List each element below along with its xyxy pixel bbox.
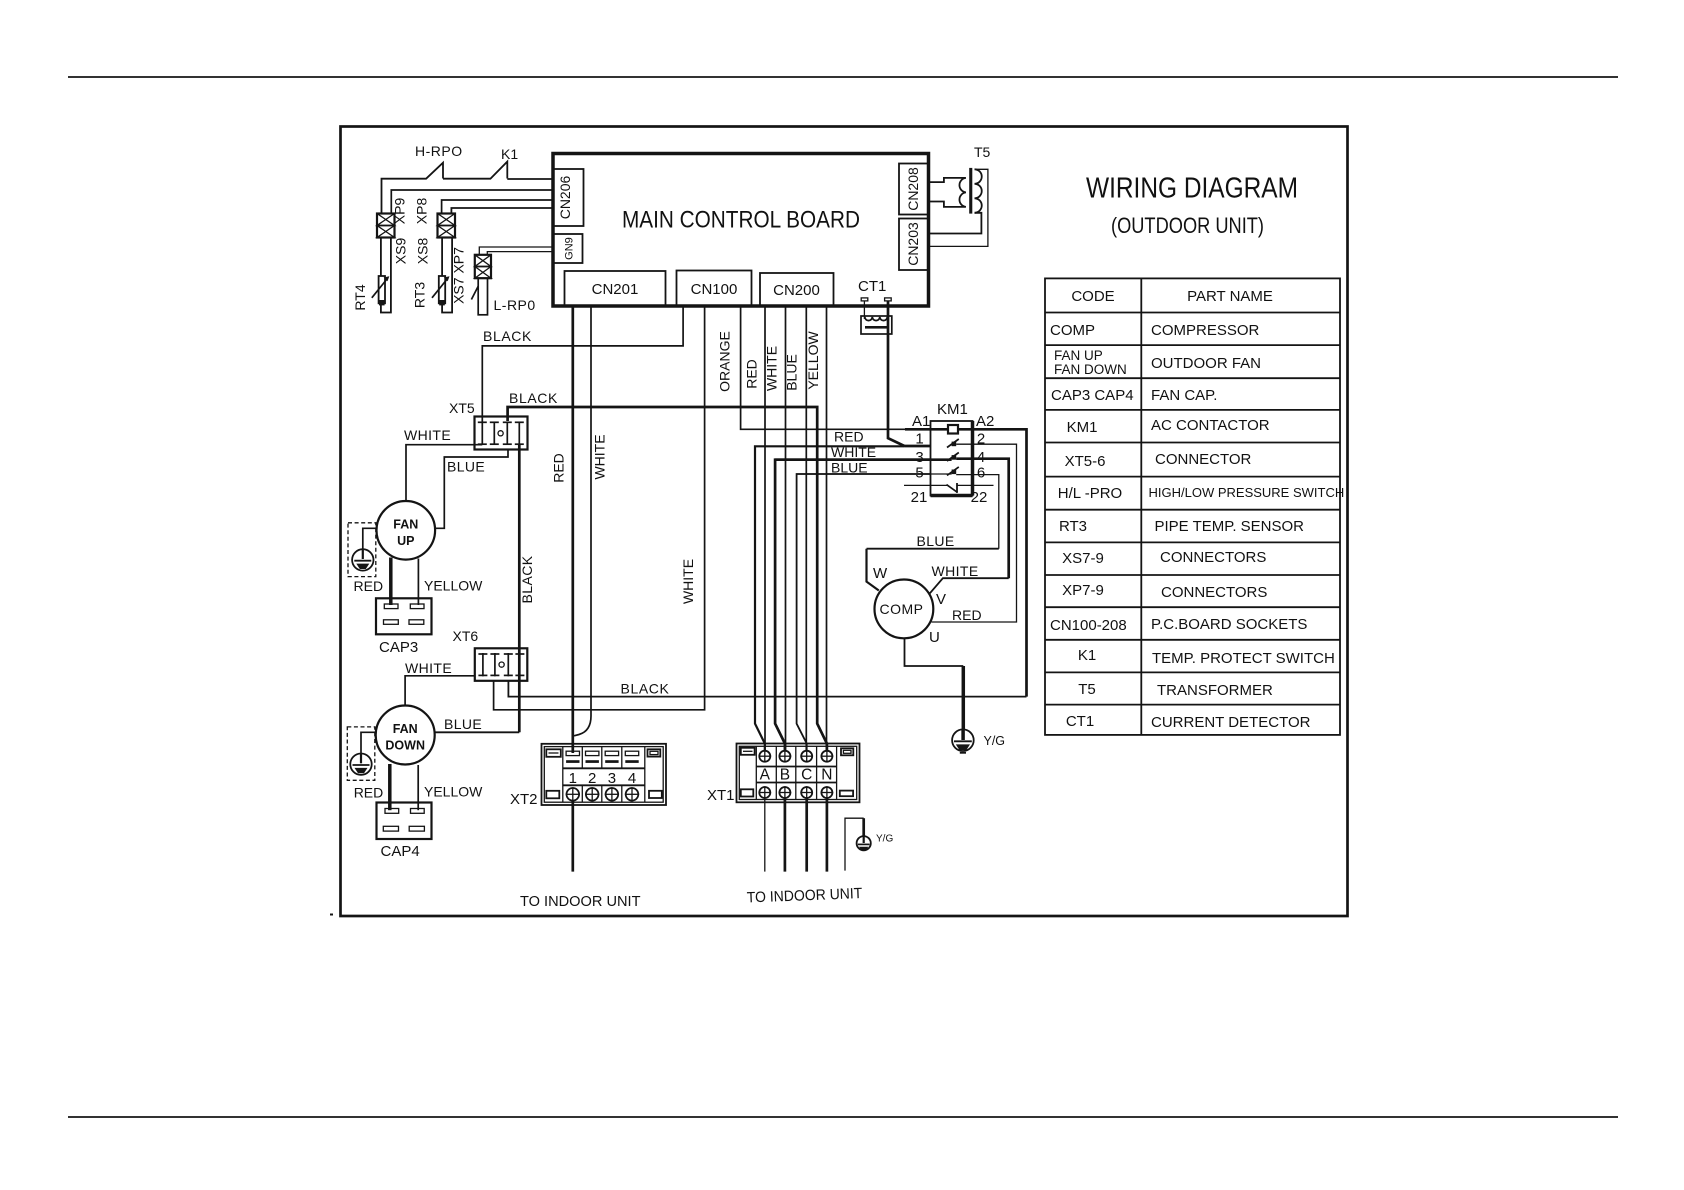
svg-text:3: 3 [608, 770, 616, 787]
svg-text:YELLOW: YELLOW [805, 331, 821, 390]
svg-text:CAP3 CAP4: CAP3 CAP4 [1051, 387, 1134, 404]
wire A1-A2 through coil to corner [508, 429, 1026, 696]
svg-text:TRANSFORMER: TRANSFORMER [1157, 682, 1273, 699]
connector CN200 [760, 273, 834, 306]
XT2 terminal 2 clamp [586, 751, 599, 763]
svg-text:YELLOW: YELLOW [424, 578, 483, 594]
wire YELLOW CN200 to XT1 N [826, 306, 828, 752]
wire ground lead to indoor unit [845, 818, 864, 870]
XT2 screws [566, 787, 639, 801]
wire RED FAN UP to CAP3 [389, 558, 393, 606]
fan motor FAN UP [377, 501, 436, 560]
svg-text:N: N [821, 767, 832, 784]
fan motor FAN DOWN [376, 706, 435, 765]
wire BLACK XT5 through XT6 down [518, 444, 521, 732]
svg-text:H/L -PRO: H/L -PRO [1058, 485, 1122, 502]
svg-text:CN200: CN200 [773, 282, 820, 299]
svg-text:HIGH/LOW PRESSURE SWITCH: HIGH/LOW PRESSURE SWITCH [1149, 485, 1345, 500]
wire GN9 pin1 to XS7 left [479, 247, 552, 255]
svg-text:B: B [780, 767, 790, 784]
svg-text:BLUE: BLUE [784, 354, 800, 391]
wire T5 secondary top to enclosure and CN203 lower pin [929, 169, 988, 246]
KM1 coil square [948, 425, 958, 434]
wire BLUE to FAN DOWN [435, 731, 519, 733]
bottom page rule [68, 1116, 1618, 1118]
wire YELLOW FAN DOWN to CAP4 [417, 765, 419, 810]
svg-text:FAN CAP.: FAN CAP. [1151, 387, 1217, 404]
KM1 contact 3-4 [775, 453, 972, 462]
T5 core bar [969, 168, 972, 214]
connector pair XS7 XP7 [475, 255, 491, 278]
wire GN9 pin2 to XS7 right [487, 252, 552, 255]
XT1 mounting slots [741, 748, 755, 755]
svg-text:BLACK: BLACK [621, 681, 670, 697]
connector pair XS9 XP9 [377, 214, 395, 238]
KM1 contact 5-6 [797, 467, 973, 476]
wire WHITE CN201 to XT2 terminal 1 [574, 306, 591, 736]
svg-text:CN208: CN208 [905, 167, 921, 211]
svg-text:P.C.BOARD SOCKETS: P.C.BOARD SOCKETS [1151, 616, 1307, 633]
wire KM1 pin1 return to XT1 A [755, 446, 904, 752]
XT1 screws top row [759, 750, 834, 763]
pressure switch L-RP0 blade [471, 286, 478, 299]
svg-text:CAP3: CAP3 [379, 639, 418, 656]
svg-text:T5: T5 [974, 144, 991, 160]
svg-text:6: 6 [977, 465, 985, 482]
svg-text:CONNECTORS: CONNECTORS [1160, 549, 1266, 566]
svg-text:BLACK: BLACK [519, 555, 535, 603]
wire U COMP to ground Y/G [905, 638, 964, 666]
ground Y/G (XT1) [857, 836, 871, 850]
svg-text:RED: RED [834, 429, 864, 445]
svg-text:FAN: FAN [393, 722, 418, 736]
svg-text:3: 3 [915, 449, 923, 466]
svg-text:WHITE: WHITE [404, 427, 451, 443]
svg-text:RED: RED [354, 578, 384, 594]
diagram outer border frame [341, 127, 1348, 917]
svg-text:FAN UP: FAN UP [1054, 348, 1103, 363]
svg-text:BLUE: BLUE [444, 716, 482, 732]
wire WHITE XT6 to FAN DOWN [405, 676, 475, 706]
contactor KM1 box [931, 421, 973, 496]
svg-text:CN100: CN100 [691, 281, 738, 298]
wire RED CN200 to XT1 A [764, 306, 766, 752]
thermistor RT4 [372, 276, 390, 305]
svg-text:5: 5 [915, 465, 923, 482]
wire CT1 left lead [863, 301, 865, 319]
wire XT2 terminal 1 to indoor unit [571, 801, 574, 872]
svg-text:FAN DOWN: FAN DOWN [1054, 362, 1127, 377]
terminal block XT2 [542, 744, 667, 805]
wire CN206 pin3 to XS8 left [442, 200, 553, 214]
connector XT5 [475, 417, 528, 450]
capacitor CAP3 [376, 598, 432, 634]
connector pair XS8 XP8 [438, 214, 456, 238]
T5 secondary winding [975, 169, 982, 213]
XT2 terminal 1 clamp [566, 751, 579, 763]
svg-text:XP8: XP8 [414, 198, 430, 225]
svg-text:21: 21 [911, 489, 928, 506]
wire ORANGE CN100 to KM1 A1 [741, 306, 905, 429]
transformer T5 [929, 144, 991, 246]
connector CN203 [899, 219, 928, 271]
wire KM1 pin3 return to XT1 B [775, 460, 930, 752]
connector CN100 [677, 271, 752, 307]
svg-text:MAIN CONTROL BOARD: MAIN CONTROL BOARD [622, 206, 860, 233]
svg-text:BLACK: BLACK [509, 390, 558, 406]
svg-text:K1: K1 [1078, 647, 1096, 664]
svg-text:BLACK: BLACK [483, 328, 532, 344]
sensor lead tube below XS9 [381, 238, 391, 313]
svg-text:2: 2 [977, 431, 985, 448]
svg-text:RT4: RT4 [352, 284, 368, 310]
svg-text:W: W [873, 565, 888, 582]
svg-text:A1: A1 [912, 413, 930, 430]
wire RED FAN DOWN to CAP4 [388, 764, 392, 810]
wire CN206 pin4 to XS8 right [451, 208, 552, 214]
svg-text:DOWN: DOWN [385, 739, 425, 753]
wire BLUE XT5 to FAN UP [436, 450, 509, 529]
svg-text:L-RP0: L-RP0 [494, 297, 536, 313]
pressure switch L-RP0 body tube [478, 278, 487, 315]
svg-text:1: 1 [569, 770, 577, 787]
wire XT1 A to indoor unit [764, 798, 766, 872]
wire WHITE XT5 to FAN UP [406, 445, 482, 501]
svg-text:XT2: XT2 [510, 791, 538, 808]
svg-text:WHITE: WHITE [405, 660, 452, 676]
wire BLUE CN200 to XT1 C [805, 306, 807, 752]
svg-text:XT5-6: XT5-6 [1065, 453, 1106, 470]
wire WHITE CN200 to XT1 B [785, 306, 787, 752]
svg-text:CURRENT DETECTOR: CURRENT DETECTOR [1151, 714, 1311, 731]
svg-text:GN9: GN9 [564, 237, 576, 260]
wire CT1 right lead to KM1 pin 1 [888, 301, 904, 446]
svg-text:KM1: KM1 [1067, 419, 1098, 436]
svg-text:XP9: XP9 [392, 198, 408, 225]
connector CN201 [565, 271, 666, 306]
stray mark [330, 914, 333, 916]
svg-text:XT6: XT6 [453, 628, 479, 644]
svg-text:UP: UP [397, 534, 414, 548]
XT1 screws bottom row [759, 786, 834, 799]
svg-text:WHITE: WHITE [932, 563, 979, 579]
svg-text:H-RPO: H-RPO [415, 143, 463, 159]
svg-text:PIPE TEMP. SENSOR: PIPE TEMP. SENSOR [1155, 518, 1305, 535]
wire RED CN201 to XT2 terminal 1 [571, 306, 574, 753]
XT2 terminal 4 clamp [625, 751, 638, 763]
thermistor RT3 [432, 276, 450, 305]
svg-text:COMPRESSOR: COMPRESSOR [1151, 322, 1260, 339]
svg-text:A: A [760, 767, 771, 784]
main control board U1 [553, 154, 929, 307]
svg-text:K1: K1 [501, 146, 518, 162]
wire CN206 pin1 with switches K1 and H-RPO to XS9 left [382, 162, 553, 214]
svg-text:RT3: RT3 [1059, 518, 1087, 535]
svg-text:T5: T5 [1078, 681, 1096, 698]
ground (FAN DOWN) with dashed enclosure [347, 727, 376, 780]
svg-text:FAN: FAN [393, 518, 418, 532]
svg-text:CONNECTORS: CONNECTORS [1161, 584, 1267, 601]
wire CN206 pin2 to XS9 right [391, 190, 552, 214]
svg-text:(OUTDOOR UNIT): (OUTDOOR UNIT) [1111, 213, 1264, 238]
svg-text:2: 2 [588, 770, 596, 787]
svg-text:ORANGE: ORANGE [717, 331, 733, 392]
wire WHITE CN100 to XT6 [494, 306, 705, 710]
svg-text:4: 4 [628, 770, 636, 787]
parts table [1045, 278, 1344, 735]
wire XT1 N to indoor unit [826, 798, 829, 872]
svg-text:V: V [936, 591, 946, 608]
svg-text:RED: RED [952, 607, 982, 623]
ground (FAN UP) with dashed enclosure [348, 523, 377, 577]
connector CN208 [899, 164, 928, 215]
svg-text:XS7 XP7: XS7 XP7 [451, 247, 467, 304]
T5 primary winding [929, 178, 966, 207]
svg-text:WHITE: WHITE [764, 346, 780, 391]
svg-text:C: C [801, 767, 812, 784]
wire WHITE KM1 pin4 to COMP V [973, 459, 1009, 579]
svg-text:CN100-208: CN100-208 [1050, 617, 1127, 634]
svg-text:CODE: CODE [1071, 288, 1114, 305]
wire XT1 B to indoor unit [784, 798, 787, 872]
wire YELLOW FAN UP to CAP3 [417, 559, 419, 606]
KM1 contact 21-22 [904, 483, 994, 493]
wire BLUE KM1 pin6 to COMP W [973, 475, 999, 549]
current detector CT1 [858, 278, 904, 446]
svg-text:RED: RED [354, 785, 384, 801]
capacitor CAP4 [377, 803, 432, 840]
svg-text:BLUE: BLUE [447, 459, 485, 475]
svg-text:U: U [929, 629, 940, 646]
wire XT1 C to indoor unit [805, 798, 808, 872]
svg-text:RT3: RT3 [412, 282, 428, 308]
svg-text:CN201: CN201 [592, 281, 639, 298]
svg-text:XS8: XS8 [415, 238, 431, 265]
svg-text:CAP4: CAP4 [381, 843, 420, 860]
svg-text:RED: RED [744, 359, 760, 389]
svg-text:PART NAME: PART NAME [1187, 288, 1273, 305]
svg-text:TO INDOOR UNIT: TO INDOOR UNIT [747, 885, 863, 906]
svg-text:YELLOW: YELLOW [424, 784, 483, 800]
svg-text:COMP: COMP [1050, 322, 1095, 339]
svg-text:KM1: KM1 [937, 401, 968, 418]
svg-text:CN206: CN206 [557, 176, 573, 220]
svg-text:XS9: XS9 [393, 238, 409, 265]
svg-text:WHITE: WHITE [680, 559, 696, 604]
svg-text:RED: RED [551, 453, 567, 483]
top page rule [68, 76, 1618, 78]
svg-text:TEMP. PROTECT SWITCH: TEMP. PROTECT SWITCH [1152, 650, 1335, 667]
wire BLACK CN100 pin1 to XT5 top [482, 306, 683, 423]
sensor lead tube below XS8 [442, 238, 452, 313]
svg-text:XP7-9: XP7-9 [1062, 582, 1104, 599]
svg-text:A2: A2 [976, 413, 994, 430]
svg-text:XT1: XT1 [707, 787, 735, 804]
compressor COMP [875, 580, 934, 639]
svg-text:Y/G: Y/G [876, 834, 893, 845]
connector XT6 [475, 648, 528, 681]
svg-text:Y/G: Y/G [984, 734, 1006, 748]
terminal block XT1 [737, 744, 860, 803]
svg-text:XS7-9: XS7-9 [1062, 550, 1104, 567]
svg-text:WHITE: WHITE [592, 434, 608, 479]
XT2 terminal 3 clamp [605, 751, 618, 763]
wire T5 secondary bottom to CN203 pin [929, 213, 982, 234]
ground Y/G (COMP) [952, 729, 974, 752]
connector GN9 [554, 234, 583, 263]
KM1 contact 1-2 [755, 439, 973, 448]
svg-text:BLUE: BLUE [917, 533, 955, 549]
svg-text:TO INDOOR UNIT: TO INDOOR UNIT [520, 893, 641, 910]
svg-text:AC CONTACTOR: AC CONTACTOR [1151, 417, 1270, 434]
svg-text:CT1: CT1 [858, 278, 886, 295]
wire RED KM1 pin2 to COMP [932, 444, 1017, 622]
svg-text:CN203: CN203 [905, 222, 921, 266]
svg-text:OUTDOOR FAN: OUTDOOR FAN [1151, 355, 1261, 372]
wire BLACK XT5 to XT1 terminal N [508, 407, 827, 752]
svg-text:1: 1 [915, 431, 923, 448]
svg-text:CONNECTOR: CONNECTOR [1155, 451, 1252, 468]
wire KM1 pin5 return to XT1 C [797, 474, 931, 752]
svg-text:WIRING DIAGRAM: WIRING DIAGRAM [1086, 173, 1298, 205]
svg-text:22: 22 [971, 489, 988, 506]
svg-text:CT1: CT1 [1066, 713, 1094, 730]
svg-text:COMP: COMP [880, 601, 924, 617]
XT2 mounting slots [546, 749, 561, 757]
connector CN206 [554, 169, 584, 226]
svg-text:XT5: XT5 [449, 400, 475, 416]
